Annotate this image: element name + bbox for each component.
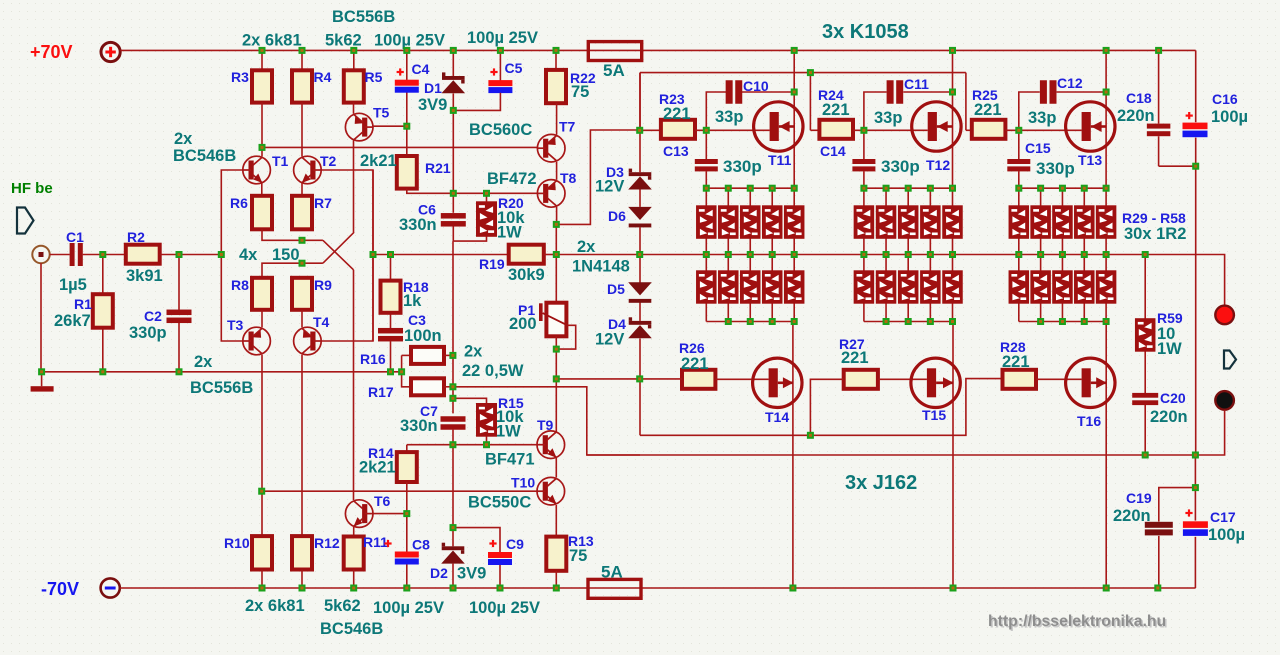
wire crossover diagonal lower <box>323 232 354 263</box>
resistor R bank stage1 top 1 <box>697 206 717 239</box>
node junction at 1084.2749999999999,188.2 <box>1081 185 1088 192</box>
node junction at 262,147.4 <box>259 144 266 151</box>
node junction at 452.9,355.4 <box>449 352 456 359</box>
resistor R59 <box>1135 319 1155 352</box>
svg-text:R7: R7 <box>314 195 332 211</box>
node junction at 261.7,491.2 <box>258 488 265 495</box>
wire stage2 bank top bus <box>864 187 953 189</box>
svg-text:R17: R17 <box>368 384 394 400</box>
svg-text:R19: R19 <box>479 256 505 272</box>
resistor R bank stage1 bottom 5 <box>784 271 804 303</box>
svg-text:221: 221 <box>822 101 850 119</box>
capacitor C3 <box>378 328 403 342</box>
wire R5 to T5 <box>353 103 355 114</box>
wire T4 collector down <box>301 355 303 536</box>
node junction at 1018.8,188.2 <box>1015 185 1022 192</box>
svg-text:100µ: 100µ <box>1208 526 1245 544</box>
svg-text:T16: T16 <box>1077 413 1101 429</box>
wire R9 to T4 <box>301 310 303 328</box>
wire diode column <box>639 73 641 436</box>
wire input to C1 <box>50 254 70 256</box>
wire D2 top to C9 <box>453 528 500 552</box>
wire bias to diode column <box>556 378 640 380</box>
svg-text:30k9: 30k9 <box>508 266 545 284</box>
svg-text:2x 6k81: 2x 6k81 <box>245 597 305 615</box>
wire stage3 gate feed <box>965 73 967 131</box>
wire stage3 bank col2 <box>1040 188 1042 321</box>
node junction at 794.2,50.4 <box>791 47 798 54</box>
diode D6 <box>628 207 652 228</box>
wire stage1 bank col3 <box>749 188 751 321</box>
wire bias rail top corner <box>640 72 966 74</box>
node junction at 1145.2,254.5 <box>1142 251 1149 258</box>
capacitor C10 <box>726 80 743 104</box>
wire stage2 bank bottom bus <box>864 321 953 323</box>
svg-text:R29 - R58: R29 - R58 <box>1122 210 1186 226</box>
svg-text:R10: R10 <box>224 535 250 551</box>
node junction at 953,588 <box>950 585 957 592</box>
resistor R bank stage1 bottom 2 <box>719 271 739 303</box>
node junction at 390.5,371.8 <box>387 368 394 375</box>
resistor R bank stage1 top 5 <box>784 206 804 239</box>
transistor T3 <box>243 327 271 355</box>
svg-text:221: 221 <box>681 355 709 373</box>
node junction at 810.4,72.6 <box>807 69 814 76</box>
capacitor C9 <box>488 552 512 565</box>
power symbol +70V <box>30 42 120 62</box>
node junction at 221.3,254.5 <box>218 251 225 258</box>
svg-text:330p: 330p <box>723 157 762 176</box>
resistor R bank stage3 bottom 1 <box>1009 271 1029 303</box>
svg-text:33p: 33p <box>715 108 743 126</box>
wire C17 column <box>1194 488 1196 588</box>
resistor R bank stage2 bottom 3 <box>898 271 918 303</box>
label HF be <box>11 180 53 197</box>
wire T15 source column <box>952 322 954 589</box>
transistor T11 <box>754 102 803 151</box>
wire T1 emitter to R6 <box>261 183 263 196</box>
wire R16 right <box>444 354 453 356</box>
node junction at 453,527.6 <box>450 524 457 531</box>
node junction at 908.2,321.5 <box>905 318 912 325</box>
svg-text:C11: C11 <box>904 76 929 92</box>
svg-text:221: 221 <box>974 101 1002 119</box>
node junction at 41.6,371.8 <box>38 368 45 375</box>
wire R16/R17 left bracket <box>402 355 411 386</box>
resistor R1 vertical wire <box>102 255 104 372</box>
capacitor C17 <box>1183 521 1208 536</box>
svg-text:R11: R11 <box>363 534 388 550</box>
node junction at 908.2,254.5 <box>905 251 912 258</box>
node junction at 1084.2749999999999,254.5 <box>1081 251 1088 258</box>
svg-text:BC556B: BC556B <box>190 379 253 397</box>
wire R25 right to gate <box>1005 129 1081 131</box>
svg-text:R3: R3 <box>231 69 249 85</box>
svg-text:T14: T14 <box>765 409 789 425</box>
resistor R12 <box>292 536 312 569</box>
svg-text:330p: 330p <box>1036 159 1075 178</box>
node junction at 886.05,321.5 <box>883 318 890 325</box>
svg-text:BC556B: BC556B <box>332 8 395 26</box>
svg-text:5k62: 5k62 <box>324 597 361 615</box>
node junction at 639.7,130.3 <box>636 127 643 134</box>
svg-text:+70V: +70V <box>30 42 73 62</box>
node junction at 772.225,188.2 <box>769 185 776 192</box>
svg-text:T13: T13 <box>1078 152 1102 168</box>
svg-text:4x: 4x <box>239 246 258 264</box>
wire crossover to T6 collector column <box>353 270 355 500</box>
resistor R bank stage1 bottom 1 <box>697 271 717 303</box>
wire R15 bottom <box>486 436 488 445</box>
node junction at 1195.7,166.2 <box>1192 163 1199 170</box>
svg-text:5k62: 5k62 <box>325 32 362 50</box>
transistor T8 <box>537 180 565 208</box>
wire R28 right to gate <box>1036 378 1082 380</box>
svg-text:100n: 100n <box>404 327 442 345</box>
resistor R28 <box>1003 370 1037 389</box>
wire C16 column <box>1195 50 1197 166</box>
wire R15 top elbow <box>453 398 487 403</box>
wire stage2 bank col1 <box>863 188 865 321</box>
node junction at 556.3,378.9 <box>553 375 560 382</box>
svg-text:1µ5: 1µ5 <box>59 276 87 294</box>
node junction at 794.2,321.5 <box>791 318 798 325</box>
potentiometer P1 <box>539 303 567 337</box>
svg-text:C5: C5 <box>505 60 523 76</box>
node junction at 728.275,321.5 <box>725 318 732 325</box>
node junction at 102.8,371.8 <box>99 368 106 375</box>
wire ground rail <box>42 371 402 373</box>
node junction at 179,254.5 <box>176 251 183 258</box>
svg-text:R26: R26 <box>679 340 705 356</box>
node junction at 863.9,254.5 <box>860 251 867 258</box>
svg-text:220n: 220n <box>1150 408 1188 426</box>
svg-text:R12: R12 <box>314 535 340 551</box>
svg-text:330n: 330n <box>399 216 437 234</box>
wire C2 column <box>178 255 180 372</box>
wire cap C15 column <box>1018 130 1020 188</box>
wire R27 right to gate <box>878 378 927 380</box>
resistor R21 <box>397 156 417 189</box>
svg-text:75: 75 <box>571 83 589 101</box>
node junction at 452.9,444.7 <box>449 441 456 448</box>
resistor R17 <box>411 378 444 395</box>
svg-text:T15: T15 <box>922 407 946 423</box>
node junction at 772.225,254.5 <box>769 251 776 258</box>
wire R20 bottom to C6 column <box>453 236 486 241</box>
wire stage1 gate feed <box>639 73 641 131</box>
capacitor C5 <box>488 80 512 93</box>
svg-text:BC546B: BC546B <box>173 147 236 165</box>
resistor R26 <box>682 370 715 389</box>
svg-text:C16: C16 <box>1212 91 1238 107</box>
svg-text:221: 221 <box>663 105 691 123</box>
wire R4 to T2 <box>301 103 303 157</box>
wire speaker return left <box>587 454 1145 456</box>
wire stage1 bank col5 <box>793 188 795 321</box>
svg-text:1N4148: 1N4148 <box>572 258 630 276</box>
ground symbol <box>31 372 54 392</box>
wire C7 bottom to D2 <box>452 430 454 547</box>
svg-text:5A: 5A <box>601 563 623 582</box>
watermark URL <box>988 613 1168 632</box>
svg-text:221: 221 <box>1002 353 1030 371</box>
svg-text:C9: C9 <box>506 536 524 552</box>
node junction at 1040.625,188.2 <box>1037 185 1044 192</box>
node junction at 453,588 <box>450 585 457 592</box>
node junction at 500.4,50.4 <box>497 47 504 54</box>
svg-text:2k21: 2k21 <box>360 152 397 170</box>
wire stage1 bank bottom bus <box>706 321 794 323</box>
node junction at 373,254.5 <box>370 251 377 258</box>
wire T5 collector down to crossover <box>353 141 355 233</box>
resistor R bank stage2 top 2 <box>876 206 896 239</box>
wire R17 right <box>444 386 453 388</box>
svg-text:http://bsselektronika.hu: http://bsselektronika.hu <box>988 613 1166 630</box>
wire stage2 bank col3 <box>907 188 909 321</box>
wire T8 emitter loop to bias rail <box>557 130 640 224</box>
node junction at 452.9,386.8 <box>449 383 456 390</box>
wire D1 column <box>452 50 454 193</box>
node junction at 353.7,588 <box>350 585 357 592</box>
node junction at 401.6,371.8 <box>398 368 405 375</box>
wire R4 top <box>301 50 303 70</box>
wire input connector to ground rail <box>40 263 42 372</box>
resistor R27 <box>844 370 878 389</box>
wire R23 left <box>640 129 661 131</box>
wire T12 drain column <box>952 50 954 188</box>
resistor R6 <box>252 196 272 230</box>
resistor R bank stage2 bottom 2 <box>876 271 896 303</box>
svg-text:100µ 25V: 100µ 25V <box>467 29 538 47</box>
wire R26 left <box>640 378 682 380</box>
resistor R bank stage2 bottom 1 <box>854 271 874 303</box>
node junction at 728.275,254.5 <box>725 251 732 258</box>
svg-text:T1: T1 <box>272 153 289 169</box>
input connector J1 <box>32 246 49 263</box>
svg-text:D5: D5 <box>607 281 625 297</box>
svg-text:2x: 2x <box>464 343 483 361</box>
node junction at 863.9,188.2 <box>860 185 867 192</box>
node junction at 302,263.2 <box>299 260 306 267</box>
node junction at 486.5,444.7 <box>483 441 490 448</box>
wire R26 right to gate <box>715 378 768 380</box>
resistor R5 <box>344 70 364 102</box>
wire R59 column <box>1144 255 1146 456</box>
wire C18 column <box>1159 50 1196 166</box>
wire rail T1-top to T7 base <box>262 146 538 148</box>
wire C16 bottom column to return rail <box>1195 166 1197 455</box>
node junction at 706.3,188.2 <box>703 185 710 192</box>
transistor T13 <box>1066 102 1115 151</box>
wire R5 top <box>353 50 355 70</box>
wire stage3 bank col5 <box>1105 188 1107 321</box>
wire J162 gate bracket <box>640 379 1003 436</box>
svg-text:1W: 1W <box>1157 340 1182 358</box>
capacitor C1 <box>70 243 83 266</box>
resistor R bank stage2 top 1 <box>854 206 874 239</box>
wire feedback column C6 to C7 <box>452 241 454 413</box>
svg-text:100µ 25V: 100µ 25V <box>373 599 444 617</box>
node junction at 1106.1,254.5 <box>1103 251 1110 258</box>
wire stage1 bank col2 <box>727 188 729 321</box>
resistor R bank stage1 bottom 3 <box>741 271 761 303</box>
node junction at 390.5,254.5 <box>387 251 394 258</box>
svg-text:R1: R1 <box>74 296 92 312</box>
wire cap C14 column <box>863 130 865 188</box>
node junction at 1157.8,588 <box>1154 585 1161 592</box>
svg-text:33p: 33p <box>874 109 902 127</box>
node junction at 556.3,224.4 <box>553 221 560 228</box>
svg-text:D6: D6 <box>608 208 626 224</box>
svg-text:1W: 1W <box>496 423 521 441</box>
node junction at 556.3,349.1 <box>553 346 560 353</box>
svg-text:C18: C18 <box>1126 90 1152 106</box>
wire R2 to bases node <box>160 254 222 256</box>
svg-text:330p: 330p <box>881 157 920 176</box>
wire stage3 bank col4 <box>1083 188 1085 321</box>
node junction at 556.3,588 <box>553 585 560 592</box>
wire R10 bottom <box>261 570 263 589</box>
svg-text:3k91: 3k91 <box>126 267 163 285</box>
node junction at 1040.625,321.5 <box>1037 318 1044 325</box>
svg-text:5A: 5A <box>603 61 625 80</box>
resistor R bank stage3 bottom 5 <box>1096 271 1116 303</box>
wire C9 bottom <box>499 565 501 588</box>
node junction at 1018.8,254.5 <box>1015 251 1022 258</box>
wire T14 source column <box>792 322 794 589</box>
node junction at 452.9,398.3 <box>449 395 456 402</box>
wire C1 to R2 <box>83 254 126 256</box>
node junction at 930.35,321.5 <box>927 318 934 325</box>
resistor R bank stage3 top 1 <box>1009 206 1029 239</box>
wire R8/R9 tops <box>262 263 323 278</box>
input arrow symbol <box>17 208 34 234</box>
node junction at 1195.4,455 <box>1192 452 1199 459</box>
node junction at 886.05,254.5 <box>883 251 890 258</box>
diode D5 <box>628 282 652 303</box>
wire T9 base row <box>407 444 538 446</box>
svg-text:T3: T3 <box>227 317 244 333</box>
wire crossover diagonal upper <box>323 240 354 269</box>
svg-text:R6: R6 <box>230 195 248 211</box>
svg-text:2x: 2x <box>174 130 193 148</box>
resistor R19 <box>509 245 544 264</box>
resistor R25 <box>972 120 1006 139</box>
node junction at 794.2,188.2 <box>791 185 798 192</box>
transistor T4 <box>294 327 322 355</box>
wire stage3 bank col3 <box>1061 188 1063 321</box>
wire output rail <box>640 255 1225 306</box>
svg-text:100µ 25V: 100µ 25V <box>469 599 540 617</box>
node junction at 500,588 <box>497 585 504 592</box>
resistor R13 <box>546 537 566 571</box>
svg-text:C12: C12 <box>1057 75 1083 91</box>
svg-text:C19: C19 <box>1126 490 1152 506</box>
node junction at 794.2,254.5 <box>791 251 798 258</box>
svg-text:R9: R9 <box>314 277 332 293</box>
speaker arrow symbol <box>1224 351 1236 369</box>
node junction at 728.275,188.2 <box>725 185 732 192</box>
svg-text:C4: C4 <box>412 61 430 77</box>
node junction at 406.8,513.6 <box>403 510 410 517</box>
node junction at 952.5,50.4 <box>949 47 956 54</box>
resistor R bank stage3 bottom 4 <box>1075 271 1095 303</box>
wire R21 bottom to C6 node <box>407 189 454 194</box>
node junction at 1106.1,321.5 <box>1103 318 1110 325</box>
wire D1 bottom to C5 bottom <box>453 93 500 111</box>
svg-text:2x 6k81: 2x 6k81 <box>242 32 302 50</box>
capacitor C16 <box>1183 123 1208 138</box>
wire R6/R7 bottoms <box>262 229 323 240</box>
wire cap C11 link <box>864 92 953 130</box>
wire R18 column <box>390 255 392 372</box>
node junction at 1018.8,130.3 <box>1015 127 1022 134</box>
resistor R24 <box>819 120 853 139</box>
svg-text:C17: C17 <box>1210 509 1236 525</box>
resistor R10 <box>252 536 272 569</box>
transistor T7 <box>537 134 565 162</box>
wire T13 drain column <box>1105 50 1107 188</box>
node junction at 1084.2749999999999,321.5 <box>1081 318 1088 325</box>
svg-text:R16: R16 <box>360 351 386 367</box>
speaker return black terminal <box>1215 391 1234 410</box>
resistor R9 <box>292 278 312 310</box>
svg-text:12V: 12V <box>595 331 624 349</box>
svg-text:D1: D1 <box>424 80 442 96</box>
resistor R11 <box>344 537 364 570</box>
wire R14 bottom to C8 <box>406 482 408 552</box>
svg-text:D2: D2 <box>430 565 448 581</box>
resistor R1 <box>93 294 113 328</box>
node junction at 794.2,92 <box>791 89 798 96</box>
svg-text:2x: 2x <box>194 353 213 371</box>
transistor T15 <box>911 358 960 407</box>
transistor T6 <box>345 500 373 528</box>
wire R23 right to gate <box>695 129 770 131</box>
svg-text:100µ: 100µ <box>1211 108 1248 126</box>
transistor T5 <box>345 113 373 141</box>
diode D4 <box>628 317 652 338</box>
wire R20 top <box>486 193 488 202</box>
resistor R bank stage1 top 2 <box>719 206 739 239</box>
wire -70V bottom rail <box>120 587 1196 589</box>
svg-text:R59: R59 <box>1157 310 1183 326</box>
capacitor C15 <box>1007 159 1030 171</box>
svg-text:T4: T4 <box>313 314 330 330</box>
node junction at 1106.1,188.2 <box>1103 185 1110 192</box>
wire stage3 bank col1 <box>1018 188 1020 321</box>
node junction at 556,50.4 <box>553 47 560 54</box>
svg-text:C3: C3 <box>408 312 426 328</box>
wire T10 emitter to R13 <box>555 505 557 537</box>
svg-text:R4: R4 <box>314 69 332 85</box>
wire speaker return <box>1145 410 1224 455</box>
node junction at 453.3,193.3 <box>450 190 457 197</box>
svg-text:22 0,5W: 22 0,5W <box>462 362 524 380</box>
svg-text:BC550C: BC550C <box>468 494 531 512</box>
wire R17 node to speaker-return rail <box>453 387 640 455</box>
node junction at 302,50.4 <box>299 47 306 54</box>
wire T7 to T8 <box>556 162 558 180</box>
wire R19 right to T8 column <box>544 254 557 256</box>
node junction at 772.225,321.5 <box>769 318 776 325</box>
node junction at 406.8,50.4 <box>403 47 410 54</box>
svg-text:1W: 1W <box>497 224 522 242</box>
resistor R18 <box>381 281 401 313</box>
resistor R bank stage3 top 2 <box>1031 206 1051 239</box>
node junction at 486.5,193.3 <box>483 190 490 197</box>
